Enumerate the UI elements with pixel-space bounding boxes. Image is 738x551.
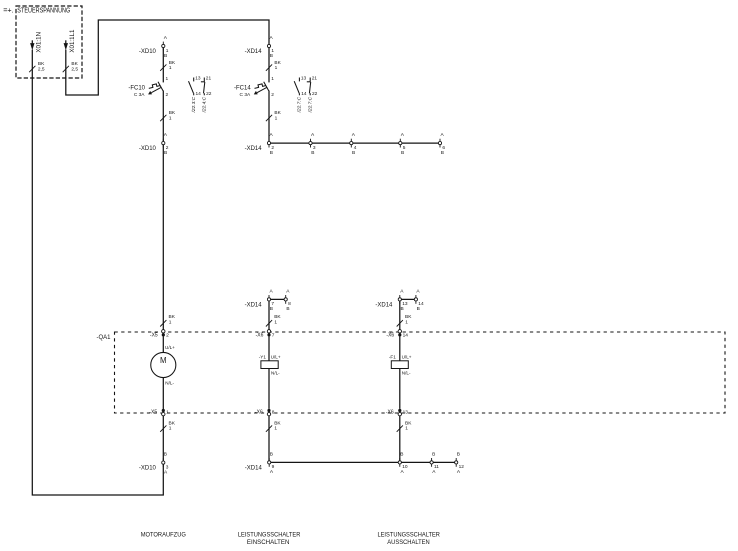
svg-text:A: A	[286, 288, 290, 294]
svg-text:1: 1	[274, 320, 277, 326]
svg-text:2: 2	[271, 92, 274, 98]
svg-text:BK: BK	[38, 61, 45, 67]
svg-text:-X6: -X6	[386, 410, 394, 416]
svg-text:A: A	[269, 288, 273, 294]
svg-text:EINSCHALTEN: EINSCHALTEN	[247, 540, 290, 546]
svg-text:C 3A: C 3A	[134, 92, 145, 98]
svg-text:1: 1	[271, 76, 274, 82]
svg-text:B: B	[400, 306, 403, 312]
wire -X6:13 to -XD14:10	[399, 416, 401, 461]
svg-text:-X6: -X6	[256, 332, 264, 338]
svg-text:B: B	[270, 451, 273, 457]
svg-text:22: 22	[312, 91, 318, 97]
svg-text:-XD14: -XD14	[245, 302, 263, 308]
terminal -XD14:13	[375, 288, 407, 312]
terminal -XD14:9	[245, 451, 275, 475]
wire -X5:1 to -XD10:3	[162, 416, 164, 461]
svg-text:14: 14	[403, 332, 409, 338]
label N/L- coil -Y1	[271, 371, 280, 376]
svg-text:C 3A: C 3A	[240, 92, 251, 98]
coil -F1	[391, 361, 408, 369]
svg-text:7: 7	[272, 332, 275, 338]
svg-text:1: 1	[169, 65, 172, 71]
terminal -XD14:11	[430, 451, 439, 475]
svg-text:A: A	[352, 132, 356, 138]
svg-text:-Y1: -Y1	[259, 355, 267, 360]
svg-text:B: B	[270, 306, 273, 312]
svg-text:B: B	[164, 53, 167, 59]
svg-text:A: A	[164, 132, 168, 138]
svg-text:-XD14: -XD14	[375, 302, 393, 308]
source arrow X01:1N	[30, 32, 42, 53]
svg-text:1: 1	[166, 76, 169, 82]
terminal -XD14:1	[245, 35, 275, 59]
terminal -XD10:1	[139, 35, 169, 59]
svg-text:21: 21	[312, 75, 318, 81]
terminal -XD14:3	[309, 132, 316, 156]
svg-text:22: 22	[206, 91, 212, 97]
frame STEUERSPANNUNG source box	[16, 6, 82, 78]
svg-text:BK: BK	[169, 420, 176, 426]
svg-text:A: A	[416, 288, 420, 294]
svg-text:A: A	[269, 35, 273, 41]
wire label BK 1 above -X6:14	[397, 314, 412, 326]
terminal -XD14:14	[414, 288, 424, 312]
svg-text:-XD14: -XD14	[245, 146, 263, 152]
wire -X6:14 to coil -F1	[399, 336, 401, 360]
svg-text:/22.4:C: /22.4:C	[202, 96, 208, 113]
plug-socket -X6:8	[255, 409, 275, 416]
svg-text:A: A	[400, 288, 404, 294]
wire -XD14:7 to -X6:7	[268, 301, 270, 329]
svg-text:-XD10: -XD10	[139, 146, 157, 152]
svg-text:BK: BK	[169, 60, 176, 66]
svg-text:21: 21	[206, 75, 212, 81]
label U/L+ coil -F1	[402, 355, 412, 360]
svg-text:BK: BK	[169, 314, 176, 320]
wire label BK 1 above -X6:7	[266, 314, 281, 326]
wire -FC14 to -XD14:2	[268, 91, 270, 142]
terminal -XD14:7	[245, 288, 275, 312]
svg-text:BK: BK	[274, 60, 281, 66]
svg-text:-X5: -X5	[149, 410, 157, 416]
svg-text:-F1: -F1	[389, 355, 396, 360]
wire label BK 1 below -X6:8	[266, 420, 281, 431]
caption LEISTUNGSSCHALTER EINSCHALTEN	[238, 532, 301, 546]
svg-text:N/L-: N/L-	[271, 371, 280, 376]
wire label BK 1 above -FC14	[266, 60, 282, 71]
caption LEISTUNGSSCHALTER AUSSCHALTEN	[377, 532, 440, 546]
svg-text:BK: BK	[405, 420, 412, 426]
svg-text:=+.: =+.	[3, 6, 13, 15]
label U/L+ motor	[165, 345, 175, 350]
wire -XD10:1 to -FC10	[162, 48, 164, 83]
svg-text:-XD14: -XD14	[245, 49, 263, 55]
svg-text:B: B	[270, 150, 273, 156]
enclosure -QA1 dashed box	[115, 332, 726, 413]
label -F1	[389, 355, 396, 360]
svg-text:1: 1	[169, 320, 172, 326]
svg-text:BK: BK	[274, 420, 281, 426]
svg-text:-X6: -X6	[255, 410, 263, 416]
svg-text:BK: BK	[274, 110, 281, 116]
svg-text:-XD14: -XD14	[245, 465, 263, 471]
wire label BK 1 above -X5:2	[160, 314, 175, 326]
caption MOTORAUFZUG	[141, 532, 186, 538]
wire coil -F1 to -X6:13	[399, 369, 401, 409]
aux contact -FC14 21/22	[307, 75, 318, 113]
plug-socket -X5:2	[150, 330, 169, 339]
label N/L- motor	[165, 380, 174, 385]
svg-text:U/L+: U/L+	[165, 345, 175, 350]
plug-socket -X6:14	[386, 330, 408, 339]
svg-text:-XD10: -XD10	[139, 466, 157, 472]
svg-text:-X5: -X5	[150, 332, 158, 338]
svg-text:M: M	[160, 356, 167, 365]
svg-text:1: 1	[169, 426, 172, 432]
svg-text:B: B	[441, 150, 444, 156]
aux contact -FC14 13/14	[294, 75, 307, 113]
wire -X6:7 to coil -Y1	[268, 336, 270, 360]
svg-text:STEUERSPANNUNG: STEUERSPANNUNG	[17, 6, 70, 15]
wire -XD14:13 to -X6:14	[399, 301, 401, 329]
svg-text:A: A	[440, 132, 444, 138]
wire -X6:8 to -XD14:9	[268, 416, 270, 461]
wire motor to -X5:1	[162, 378, 164, 409]
wire label BK 1 above -FC10	[160, 60, 176, 71]
label -Y1	[259, 355, 267, 360]
svg-text:-FC10: -FC10	[128, 86, 145, 92]
svg-text:1: 1	[405, 320, 408, 326]
label N/L- coil -F1	[402, 371, 411, 376]
svg-text:A: A	[311, 132, 315, 138]
wire bus -XD14:7 to -XD14:8	[269, 298, 286, 300]
svg-text:U/L+: U/L+	[271, 355, 281, 360]
svg-text:U/L+: U/L+	[402, 355, 412, 360]
svg-text:A: A	[269, 132, 273, 138]
coil -Y1	[261, 361, 278, 369]
svg-text:B: B	[164, 452, 167, 458]
label U/L+ coil -Y1	[271, 355, 281, 360]
svg-text:/22.7:C: /22.7:C	[307, 96, 313, 113]
svg-text:1: 1	[405, 426, 408, 432]
label =+. location prefix	[3, 6, 13, 15]
wire X01:1L1 jog up to top rail feeding -XD14:1	[66, 20, 269, 95]
motor M1 circle	[151, 352, 176, 377]
wire label BK 2,5 on X01:1N	[29, 61, 45, 73]
svg-text:B: B	[417, 306, 420, 312]
svg-text:A: A	[401, 132, 405, 138]
wire bus -XD14:2 to -XD14:6	[269, 142, 440, 144]
svg-text:/22.3:C: /22.3:C	[191, 96, 197, 113]
svg-text:13: 13	[195, 75, 201, 81]
svg-text:B: B	[400, 451, 403, 457]
svg-text:B: B	[270, 53, 273, 59]
terminal -XD14:4	[350, 132, 357, 156]
plug-socket -X6:13	[386, 409, 408, 416]
svg-text:X01:1N: X01:1N	[36, 32, 43, 53]
svg-text:BK: BK	[169, 110, 176, 116]
svg-text:-XD10: -XD10	[139, 49, 157, 55]
wire -XD10:2 to -X5:2	[162, 145, 164, 330]
terminal -XD14:2	[245, 132, 275, 156]
svg-text:LEISTUNGSSCHALTER: LEISTUNGSSCHALTER	[238, 532, 301, 538]
wire -XD14:1 to -FC14	[268, 48, 270, 83]
wire label BK 1 below -X6:13	[397, 420, 412, 431]
svg-text:8: 8	[272, 409, 275, 415]
terminal -XD10:3	[139, 452, 169, 476]
svg-text:B: B	[352, 150, 355, 156]
wire bus -XD14:13 to -XD14:14	[400, 298, 416, 300]
svg-text:-QA1: -QA1	[96, 335, 111, 341]
terminal -XD14:5	[399, 132, 406, 156]
svg-text:N/L-: N/L-	[402, 371, 411, 376]
svg-text:2,5: 2,5	[38, 67, 45, 73]
svg-text:B: B	[311, 150, 314, 156]
svg-text:1: 1	[166, 409, 169, 415]
svg-text:13: 13	[301, 75, 307, 81]
svg-text:LEISTUNGSSCHALTER: LEISTUNGSSCHALTER	[377, 532, 440, 538]
svg-text:1: 1	[169, 115, 172, 121]
svg-text:1: 1	[274, 426, 277, 432]
svg-text:-X6: -X6	[386, 332, 394, 338]
aux contact -FC10 13/14	[189, 75, 202, 113]
terminal -XD10:2	[139, 132, 169, 156]
terminal -XD14:10	[398, 451, 408, 475]
svg-text:AUSSCHALTEN: AUSSCHALTEN	[387, 540, 430, 546]
svg-text:14: 14	[301, 91, 307, 97]
aux contact -FC10 21/22	[201, 75, 212, 113]
wire coil -Y1 to -X6:8	[268, 369, 270, 409]
source arrow X01:1L1	[64, 29, 76, 53]
terminal -XD14:12	[455, 451, 465, 475]
wire label BK 1 below -FC10	[160, 110, 176, 121]
svg-text:N/L-: N/L-	[165, 380, 174, 385]
wire -FC10 to -XD10:2	[162, 91, 164, 142]
svg-text:2,5: 2,5	[71, 67, 78, 73]
svg-text:X01:1L1: X01:1L1	[69, 29, 76, 53]
label -QA1	[96, 335, 111, 341]
svg-text:MOTORAUFZUG: MOTORAUFZUG	[141, 532, 186, 538]
circuit breaker -FC10	[128, 76, 168, 98]
svg-text:A: A	[164, 35, 168, 41]
svg-text:BK: BK	[405, 314, 412, 320]
plug-socket -X5:1	[149, 409, 169, 416]
circuit breaker -FC14	[234, 76, 274, 98]
wire label BK 2,5 on X01:1L1	[63, 61, 79, 73]
plug-socket -X6:7	[256, 330, 275, 339]
svg-text:2: 2	[166, 332, 169, 338]
svg-text:-FC14: -FC14	[234, 86, 251, 92]
svg-text:13: 13	[403, 409, 409, 415]
wire bus -XD14:9 to -XD14:12	[269, 461, 456, 463]
svg-text:BK: BK	[274, 314, 281, 320]
terminal -XD14:6	[438, 132, 445, 156]
svg-text:14: 14	[196, 91, 202, 97]
terminal -XD14:8	[284, 288, 291, 312]
svg-text:1: 1	[275, 115, 278, 121]
svg-text:B: B	[432, 451, 435, 457]
label STEUERSPANNUNG	[17, 6, 70, 15]
svg-text:BK: BK	[71, 61, 78, 67]
svg-text:2: 2	[166, 92, 169, 98]
wire label BK 1 below -FC14	[266, 110, 282, 121]
svg-text:B: B	[401, 150, 404, 156]
wire label BK 1 below -X5:1	[160, 420, 175, 431]
svg-text:B: B	[164, 150, 167, 156]
wire -X5:2 to motor	[162, 336, 164, 352]
svg-text:B: B	[457, 451, 460, 457]
svg-text:1: 1	[275, 65, 278, 71]
svg-text:/22.7:C: /22.7:C	[297, 96, 303, 113]
wire X01:1N down-left rail to -XD10:3	[32, 50, 163, 495]
svg-text:B: B	[286, 306, 289, 312]
